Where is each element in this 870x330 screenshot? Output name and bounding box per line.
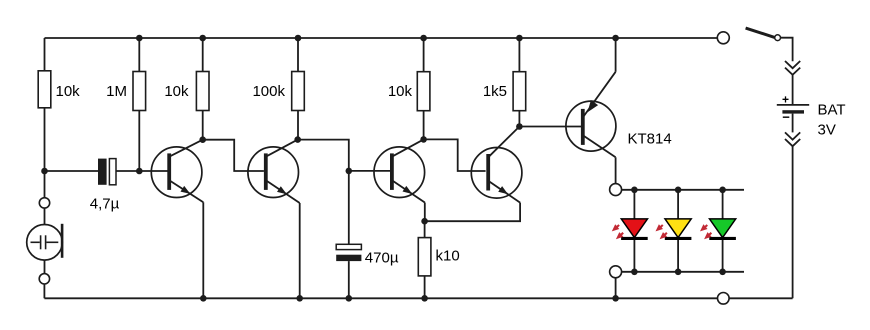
svg-text:1k5: 1k5 (483, 83, 507, 100)
label R2 value 1M (106, 83, 127, 100)
transistor VT5 KT814 (PNP) (566, 72, 616, 158)
svg-text:470µ: 470µ (365, 250, 399, 267)
node VT1 emitter at ground rail (200, 295, 207, 302)
node R7 top junction (VT3/VT4 emitters) (421, 218, 428, 225)
battery GB1 minus plate (782, 110, 804, 113)
terminal mic bottom (39, 274, 49, 284)
LED HL3 emission arrows (700, 224, 712, 239)
wire node to C2 top plate (348, 171, 350, 244)
wire mic to bottom terminal (44, 260, 46, 274)
wire top rail to R2 (138, 38, 140, 72)
wire R2 bottom to VT1 base node (138, 111, 140, 172)
wire top supply rail (45, 37, 718, 39)
label R3 value 10k (164, 83, 189, 100)
wire R7 top (424, 221, 426, 237)
resistor R4 100k (292, 72, 305, 111)
svg-text:4,7µ: 4,7µ (90, 196, 120, 213)
node LED return at ground rail (612, 295, 619, 302)
label R7 value k10 (436, 248, 460, 265)
label R4 value 100k (252, 83, 285, 100)
wire right rail down to ground (792, 146, 794, 298)
wire bottom ground rail (44, 297, 717, 299)
node LED1 cathode (631, 269, 638, 276)
wire switch to right rail corner (781, 38, 793, 62)
wire R6 bottom to VT4 collector (518, 111, 520, 127)
node C2 / VT3 base junction (346, 168, 353, 175)
wire VT2 collector to C2/VT3 node (298, 140, 349, 171)
wire VT1 emitter to ground (202, 202, 204, 298)
svg-text:BAT: BAT (818, 102, 846, 119)
LED HL1 red (621, 190, 648, 272)
transistor VT2 (NPN) (248, 140, 300, 203)
node LED2 cathode (675, 269, 682, 276)
node R5 top (420, 35, 427, 42)
LED HL3 green (709, 190, 736, 272)
node VT2 collector junction (294, 136, 301, 143)
transistor VT3 (NPN) (374, 139, 425, 202)
terminal LED block bottom (610, 266, 622, 278)
node VT1 collector junction (199, 136, 206, 143)
label battery plus sign (782, 93, 789, 107)
node R2 top (136, 35, 143, 42)
wire top rail to R6 (518, 38, 520, 72)
switch SA1 contact (775, 35, 781, 41)
resistor R1 10k (38, 71, 51, 108)
wire VT2 emitter to ground (299, 203, 301, 298)
wire VT1 collector to VT2 base (203, 140, 264, 171)
LED HL1 emission arrows (612, 224, 624, 239)
label R6 value 1k5 (483, 83, 507, 100)
wire R4 bottom to VT2 collector (297, 111, 299, 140)
wire R7 bottom to ground (424, 276, 426, 298)
svg-text:3V: 3V (818, 122, 836, 139)
wire LED cathode rail (622, 271, 744, 273)
terminal LED block top (610, 184, 622, 196)
transistor VT1 (NPN) (151, 140, 203, 203)
wire VT4 emitter to R7 node (425, 203, 520, 222)
svg-text:10k: 10k (56, 83, 81, 100)
wire R1 bottom to input node (44, 108, 46, 171)
battery GB1 plus plate (777, 104, 809, 106)
wire node to VT3 base (349, 170, 391, 172)
wire C1 to base node of VT1 (116, 170, 168, 172)
wire LED bottom terminal to ground rail (615, 278, 617, 299)
label C2 value 470µ (365, 250, 399, 267)
wire R5 bottom to VT3 collector (423, 111, 425, 140)
label C1 value 4,7µ (90, 196, 120, 213)
wire VT5 collector down to LED terminal (615, 157, 617, 183)
resistor R5 10k (417, 72, 430, 111)
node VT1 base junction (136, 168, 143, 175)
node VT5 emitter at top rail (612, 35, 619, 42)
svg-text:k10: k10 (436, 248, 460, 265)
node C2 at ground rail (346, 295, 353, 302)
LED HL2 yellow (665, 190, 692, 272)
node LED1 anode (631, 187, 638, 194)
label VT5 type KT814 (628, 131, 672, 148)
resistor R6 1k5 (513, 72, 526, 111)
node R7 at ground rail (421, 295, 428, 302)
terminal mic top (39, 198, 49, 208)
connector chevrons (battery + lead) (785, 61, 800, 75)
node LED2 anode (675, 187, 682, 194)
wire LED anode rail (622, 189, 744, 191)
svg-text:KT814: KT814 (628, 131, 672, 148)
wire VT3 collector to VT4 base (424, 139, 486, 171)
wire VT4 collector to VT5 base (519, 126, 581, 128)
wire mic top terminal to mic (44, 208, 46, 224)
capacitor C2 470µ (336, 244, 361, 261)
svg-text:100k: 100k (252, 83, 285, 100)
terminal switch left (717, 32, 729, 44)
wire R3 bottom to VT1 collector (202, 111, 204, 140)
wire ground rail right segment (729, 297, 793, 299)
label battery BAT (818, 102, 846, 119)
wire battery - to chevrons (792, 114, 794, 133)
LED HL2 emission arrows (656, 224, 668, 239)
wire top rail to R4 (297, 38, 299, 72)
wire C2 bottom plate to ground (348, 261, 350, 298)
wire input node to mic top terminal (44, 171, 46, 198)
node R4 top (295, 35, 302, 42)
svg-text:10k: 10k (388, 83, 413, 100)
transistor VT4 (NPN) (471, 127, 522, 203)
resistor R2 1M (133, 72, 146, 111)
label R5 value 10k (388, 83, 413, 100)
label battery 3V (818, 122, 836, 139)
wire mic bottom terminal to ground rail (43, 284, 45, 298)
node LED3 anode (719, 187, 726, 194)
node LED3 cathode (719, 269, 726, 276)
wire top rail to R5 (423, 38, 425, 72)
switch SA1 blade (746, 28, 775, 37)
resistor R7 k10 (418, 238, 431, 276)
node input junction (R1/mic/C1) (41, 168, 48, 175)
wire chevrons to battery + (792, 75, 794, 104)
wire input node to C1 (45, 170, 99, 172)
connector chevrons (battery - lead) (785, 132, 800, 146)
capacitor C1 4,7u (98, 159, 116, 185)
wire top rail to R3 (202, 38, 204, 72)
svg-text:+: + (782, 93, 789, 107)
node VT4 collector junction (516, 123, 523, 130)
svg-text:10k: 10k (164, 83, 189, 100)
microphone BM1 (27, 224, 64, 260)
wire VT3 emitter down to R7 node (424, 203, 426, 222)
label R1 value 10k (56, 83, 81, 100)
wire VT5 emitter to top rail (615, 38, 617, 72)
node VT2 emitter at ground rail (296, 295, 303, 302)
node R6 top (516, 35, 523, 42)
svg-text:−: − (782, 110, 790, 125)
terminal ground rail connector (718, 293, 730, 305)
label battery minus sign (782, 110, 790, 125)
node R3 top (199, 35, 206, 42)
node VT3 collector junction (420, 136, 427, 143)
wire left rail top segment (to R1) (44, 38, 46, 71)
resistor R3 10k (196, 72, 209, 111)
svg-text:1M: 1M (106, 83, 127, 100)
